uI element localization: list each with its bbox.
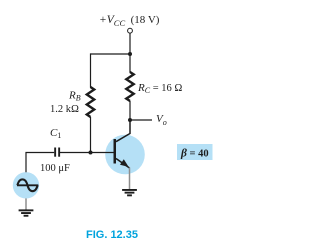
svg-text:+VCC (18 V): +VCC (18 V) (99, 14, 160, 28)
wire: capacitor to source corner (26, 153, 54, 173)
wire: left branch upper (90, 53, 92, 87)
ground (transistor emitter) (122, 189, 137, 196)
wire: emitter to ground (grey stem) (129, 168, 131, 190)
wire: base wire (60, 152, 114, 154)
transistor Q1 base bar (114, 139, 117, 164)
ground (left) (19, 209, 34, 216)
wire: RC branch upper (129, 54, 131, 73)
resistor RB (87, 87, 94, 117)
label beta = 40 (highlight box) (177, 144, 213, 160)
svg-text:C1: C1 (50, 127, 61, 140)
node: Vo junction dot (128, 118, 132, 122)
wire: collector lead into transistor (116, 120, 130, 142)
wire: VCC circle down to top node (129, 33, 131, 54)
wire: top horizontal (91, 53, 131, 55)
AC source highlight circle (13, 172, 39, 198)
transistor Q1 emitter lead (116, 159, 130, 169)
power terminal +VCC open circle (128, 28, 133, 33)
svg-text:RB: RB (68, 90, 81, 103)
node: base junction dot (89, 151, 93, 155)
svg-text:1.2 kΩ: 1.2 kΩ (50, 104, 79, 115)
wire: source to ground (grey stem) (25, 198, 27, 210)
node: top junction dot (128, 52, 132, 56)
transistor highlight circle (105, 135, 145, 175)
svg-text:RC = 16 Ω: RC = 16 Ω (137, 82, 182, 95)
AC source Vi sine symbol (17, 184, 38, 186)
svg-text:100 μF: 100 μF (40, 163, 70, 174)
svg-text:Vo: Vo (156, 113, 167, 127)
svg-text:β = 40: β = 40 (180, 148, 209, 160)
capacitor C1 plates (54, 148, 56, 157)
wire: Vo stub (130, 119, 152, 121)
wire: RC bottom to Vo node (129, 101, 131, 120)
resistor RC (126, 72, 133, 101)
svg-text:FIG. 12.35: FIG. 12.35 (86, 229, 138, 241)
transistor Q1 emitter arrowhead (120, 159, 129, 167)
wire: left branch lower (90, 117, 92, 153)
